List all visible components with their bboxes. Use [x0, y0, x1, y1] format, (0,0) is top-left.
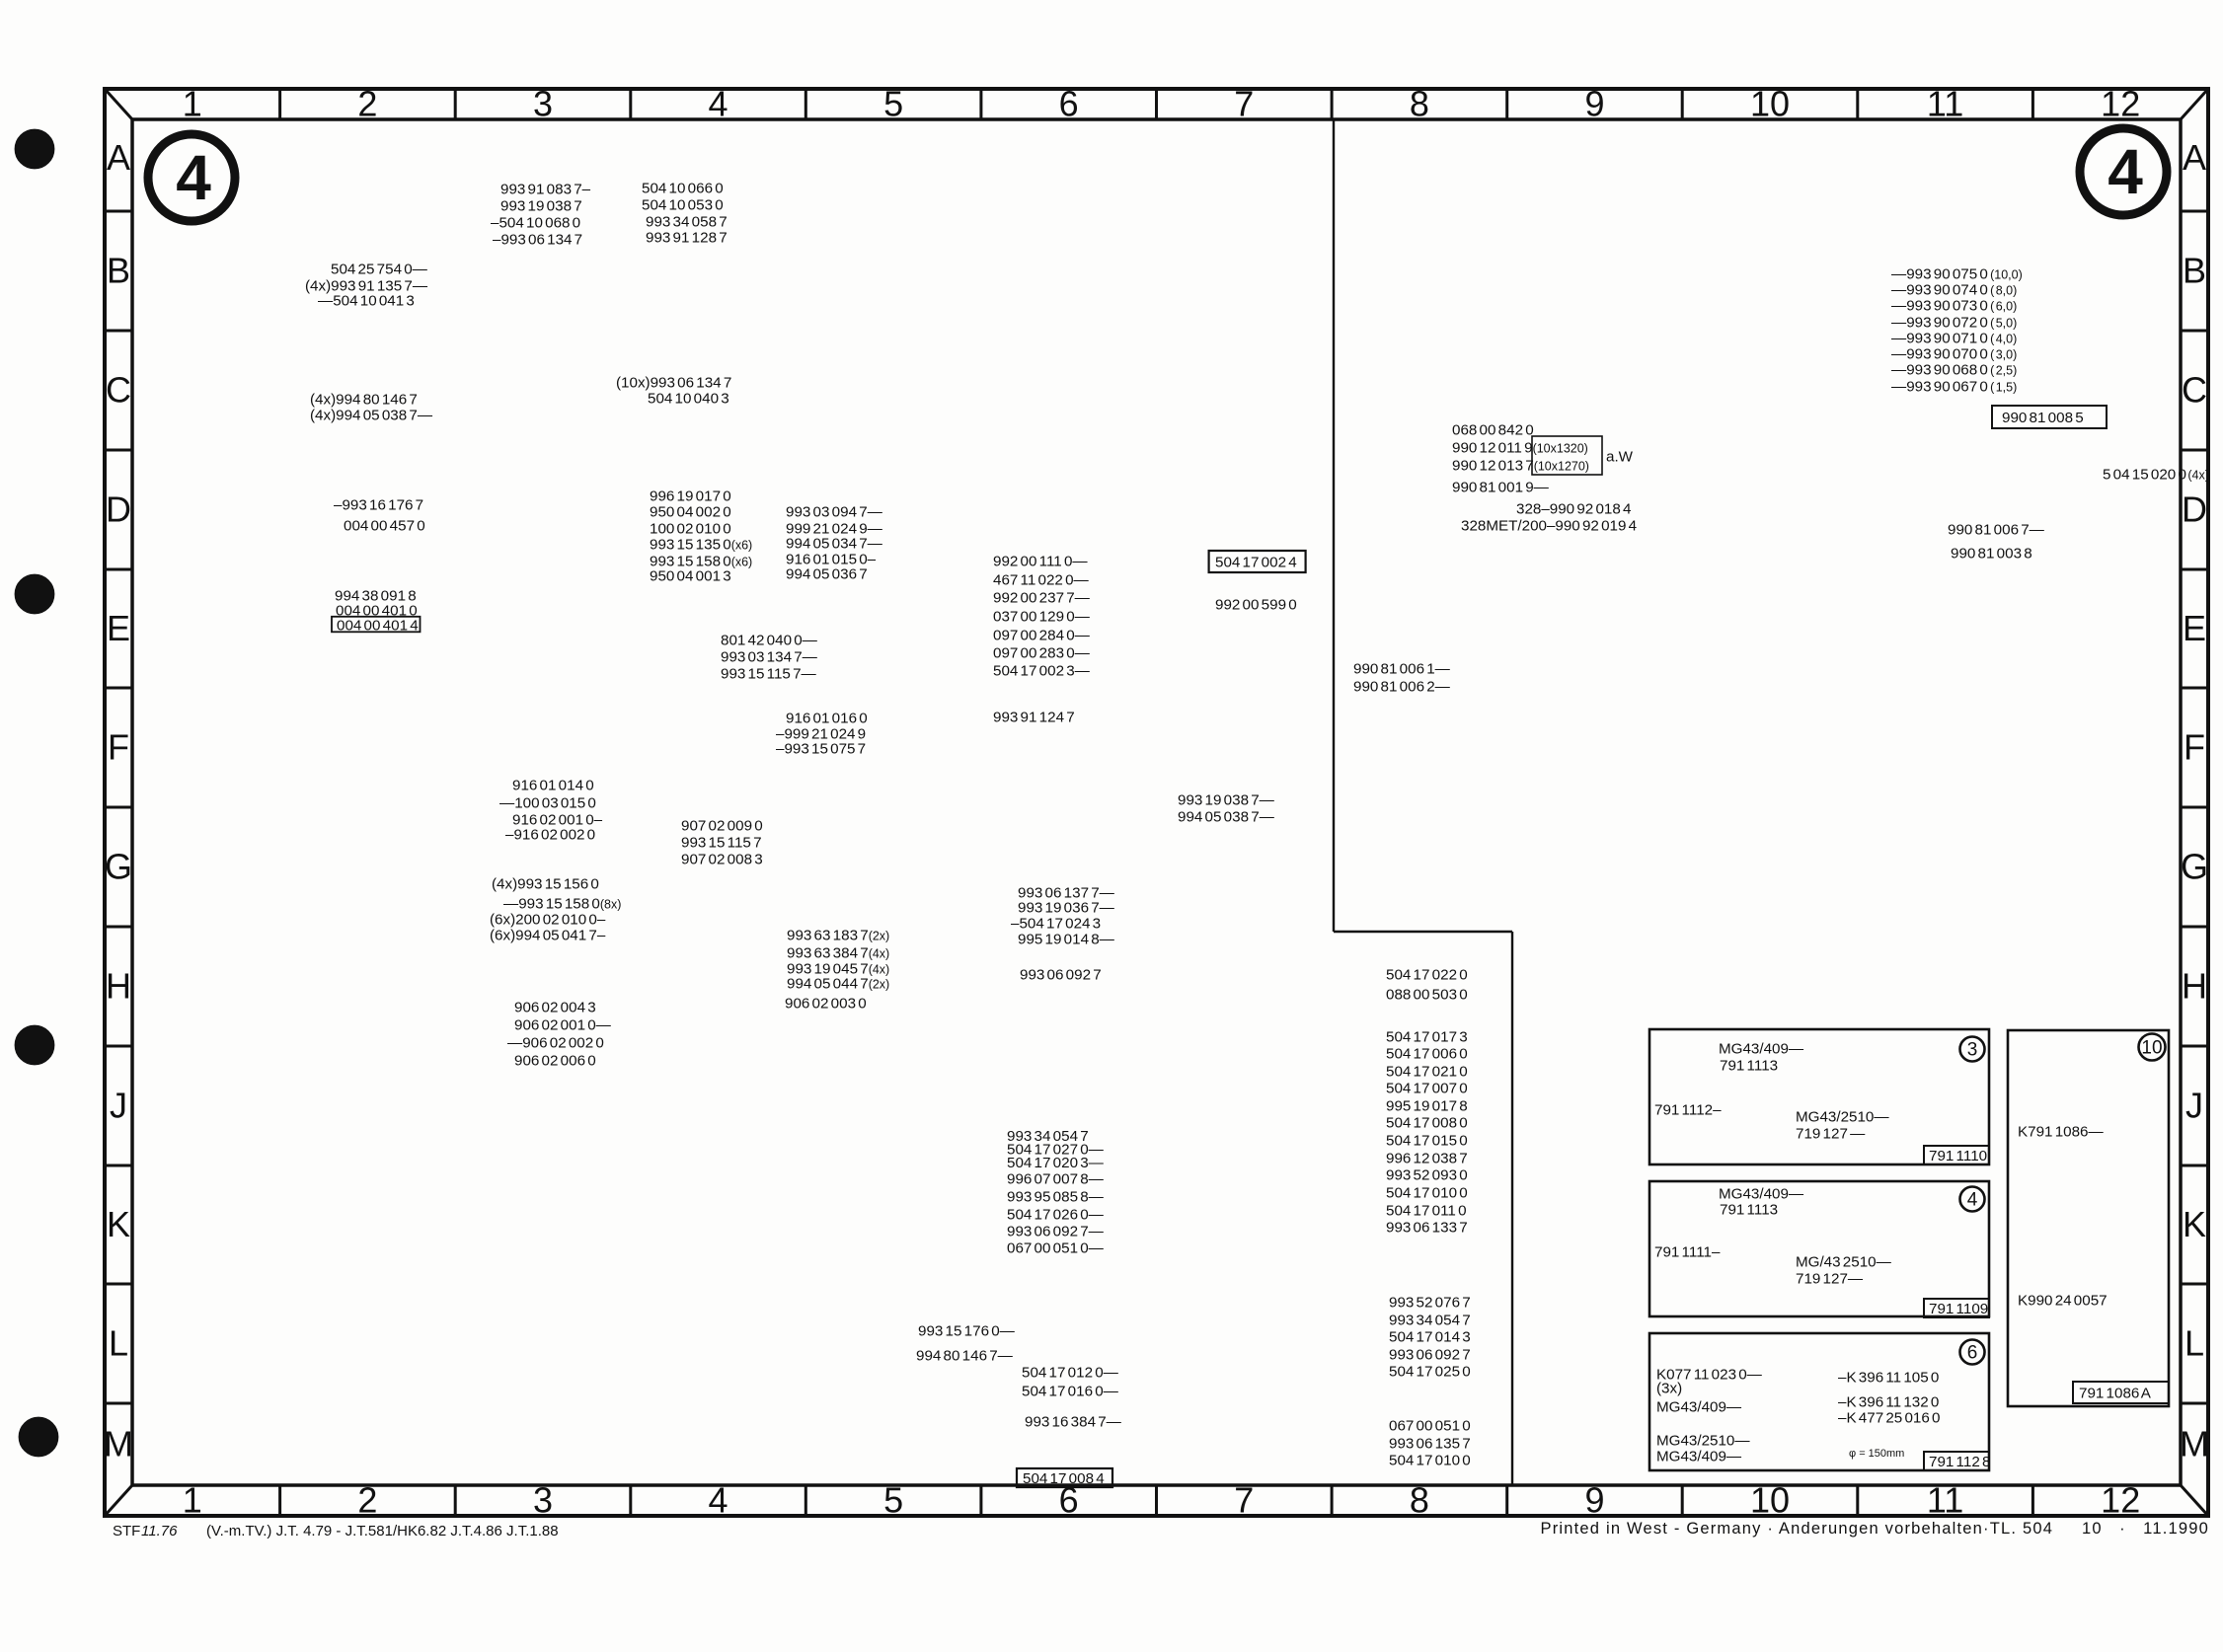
- svg-text:906 02 003 0: 906 02 003 0: [785, 995, 867, 1012]
- svg-text:4: 4: [2108, 136, 2143, 207]
- svg-text:068 00 842 0: 068 00 842 0: [1452, 421, 1534, 438]
- svg-text:K: K: [107, 1204, 130, 1244]
- svg-text:(6x)200 02 010 0–: (6x)200 02 010 0–: [490, 911, 606, 928]
- svg-text:φ = 150mm: φ = 150mm: [1849, 1448, 1904, 1460]
- svg-text:K791 1086—: K791 1086—: [2018, 1123, 2104, 1140]
- svg-text:791 1113: 791 1113: [1720, 1201, 1778, 1218]
- svg-text:993 63 384 7(4x): 993 63 384 7(4x): [787, 944, 889, 961]
- svg-text:10: 10: [2141, 1038, 2162, 1059]
- svg-text:994 05 034 7—: 994 05 034 7—: [786, 535, 883, 552]
- svg-text:719 127 —: 719 127 —: [1796, 1125, 1866, 1142]
- svg-text:504 17 025 0: 504 17 025 0: [1389, 1363, 1471, 1380]
- panel box 3: [1649, 1029, 1989, 1164]
- svg-text:G: G: [2181, 847, 2208, 887]
- svg-text:907 02 009 0: 907 02 009 0: [681, 817, 763, 834]
- svg-text:H: H: [2182, 966, 2207, 1007]
- svg-text:950 04 001 3: 950 04 001 3: [650, 567, 731, 584]
- svg-text:K990 24 0057: K990 24 0057: [2018, 1292, 2108, 1309]
- svg-text:907 02 008 3: 907 02 008 3: [681, 851, 763, 867]
- panel box 10: [2008, 1030, 2169, 1406]
- boxed label 791 1128: [1924, 1452, 1989, 1470]
- svg-text:328–990 92 018 4: 328–990 92 018 4: [1516, 500, 1631, 517]
- svg-text:(6x)994 05 041 7–: (6x)994 05 041 7–: [490, 927, 606, 943]
- svg-text:Printed in West - Germany · An: Printed in West - Germany · Anderungen v…: [1540, 1520, 2209, 1538]
- svg-text:950 04 002 0: 950 04 002 0: [650, 503, 731, 520]
- svg-text:067 00 051 0: 067 00 051 0: [1389, 1417, 1471, 1434]
- svg-text:–916 02 002 0: –916 02 002 0: [505, 826, 595, 843]
- svg-text:504 17 002 4: 504 17 002 4: [1215, 554, 1297, 570]
- svg-text:5: 5: [883, 1480, 903, 1521]
- svg-text:504 17 010 0: 504 17 010 0: [1386, 1184, 1468, 1201]
- svg-text:1: 1: [183, 1480, 202, 1521]
- svg-text:MG43/409—: MG43/409—: [1656, 1398, 1742, 1415]
- svg-text:992 00 237 7—: 992 00 237 7—: [993, 589, 1091, 606]
- svg-text:993 91 124 7: 993 91 124 7: [993, 709, 1075, 725]
- svg-text:993 91 128 7: 993 91 128 7: [646, 229, 728, 246]
- svg-text:993 03 094 7—: 993 03 094 7—: [786, 503, 883, 520]
- svg-text:—993 90 075 0 (10,0): —993 90 075 0 (10,0): [1891, 265, 2023, 282]
- svg-text:1: 1: [183, 84, 202, 124]
- svg-text:L: L: [2185, 1323, 2204, 1364]
- svg-text:504 25 754 0—: 504 25 754 0—: [331, 261, 428, 277]
- svg-text:993 52 093 0: 993 52 093 0: [1386, 1166, 1468, 1183]
- svg-text:—100 03 015 0: —100 03 015 0: [499, 794, 596, 811]
- sheet number circle left: [148, 134, 235, 221]
- sheet number circle right: [2080, 128, 2167, 215]
- svg-text:504 17 022 0: 504 17 022 0: [1386, 966, 1468, 983]
- svg-text:504 17 021 0: 504 17 021 0: [1386, 1063, 1468, 1080]
- svg-text:6: 6: [1059, 84, 1079, 124]
- svg-text:037 00 129 0—: 037 00 129 0—: [993, 608, 1091, 625]
- svg-text:004 00 401 4: 004 00 401 4: [337, 617, 419, 634]
- svg-text:990 81 006 1—: 990 81 006 1—: [1353, 660, 1451, 677]
- svg-text:7: 7: [1234, 1480, 1254, 1521]
- svg-text:990 12 013 7(10x1270): 990 12 013 7(10x1270): [1452, 457, 1589, 474]
- svg-text:504 17 007 0: 504 17 007 0: [1386, 1080, 1468, 1096]
- svg-text:719 127—: 719 127—: [1796, 1270, 1864, 1287]
- svg-text:–504 10 068 0: –504 10 068 0: [491, 214, 580, 231]
- svg-text:8: 8: [1410, 1480, 1429, 1521]
- boxed label 791 1110: [1924, 1146, 1989, 1164]
- svg-text:3: 3: [1967, 1040, 1978, 1061]
- svg-text:906 02 006 0: 906 02 006 0: [514, 1052, 596, 1069]
- svg-text:—993 90 068 0 ( 2,5): —993 90 068 0 ( 2,5): [1891, 361, 2017, 378]
- svg-text:12: 12: [2101, 84, 2140, 124]
- svg-text:504 17 008 0: 504 17 008 0: [1386, 1114, 1468, 1131]
- registration dot upper-middle: [16, 575, 54, 614]
- svg-text:993 03 134 7—: 993 03 134 7—: [721, 648, 818, 665]
- area divider line: [1333, 119, 1335, 932]
- svg-text:10: 10: [1750, 84, 1790, 124]
- svg-text:994 05 038 7—: 994 05 038 7—: [1178, 808, 1275, 825]
- svg-text:993 19 038 7: 993 19 038 7: [500, 197, 582, 214]
- svg-text:M: M: [104, 1424, 133, 1464]
- svg-text:(V.-m.TV.) J.T. 4.79 - J.T.581: (V.-m.TV.) J.T. 4.79 - J.T.581/HK6.82 J.…: [206, 1523, 559, 1539]
- svg-text:504 10 040 3: 504 10 040 3: [648, 390, 729, 407]
- svg-text:J: J: [110, 1086, 127, 1126]
- boxed label 504 17 002 4: [1209, 551, 1306, 572]
- svg-text:993 19 038 7—: 993 19 038 7—: [1178, 791, 1275, 808]
- svg-text:504 10 053 0: 504 10 053 0: [642, 196, 724, 213]
- svg-text:L: L: [109, 1323, 128, 1364]
- svg-text:993 06 092 7—: 993 06 092 7—: [1007, 1223, 1105, 1239]
- svg-text:906 02 004 3: 906 02 004 3: [514, 999, 596, 1015]
- svg-text:—906 02 002 0: —906 02 002 0: [507, 1034, 604, 1051]
- svg-text:A: A: [2183, 137, 2206, 178]
- registration dot lower-middle: [16, 1026, 54, 1065]
- svg-text:a.W: a.W: [1606, 448, 1634, 465]
- svg-text:12: 12: [2101, 1480, 2140, 1521]
- svg-text:MG/43 2510—: MG/43 2510—: [1796, 1253, 1892, 1270]
- svg-text:504 17 015 0: 504 17 015 0: [1386, 1132, 1468, 1149]
- svg-text:C: C: [2182, 370, 2207, 411]
- svg-text:504 17 016 0—: 504 17 016 0—: [1022, 1383, 1119, 1399]
- svg-text:(10x)993 06 134 7: (10x)993 06 134 7: [616, 374, 731, 391]
- svg-text:993 06 135 7: 993 06 135 7: [1389, 1435, 1471, 1452]
- svg-text:4: 4: [176, 142, 211, 213]
- svg-text:–993 15 075 7: –993 15 075 7: [776, 740, 866, 757]
- svg-text:4: 4: [1967, 1190, 1978, 1211]
- svg-text:993 15 115 7—: 993 15 115 7—: [721, 665, 817, 682]
- svg-text:791 1110: 791 1110: [1929, 1148, 1987, 1164]
- svg-text:990 81 001 9—: 990 81 001 9—: [1452, 479, 1550, 495]
- svg-text:F: F: [108, 727, 129, 768]
- svg-text:791 112 8: 791 112 8: [1929, 1454, 1990, 1470]
- svg-text:—993 90 070 0 ( 3,0): —993 90 070 0 ( 3,0): [1891, 345, 2017, 362]
- svg-text:—993 90 072 0 ( 5,0): —993 90 072 0 ( 5,0): [1891, 314, 2017, 331]
- svg-text:791 1113: 791 1113: [1720, 1057, 1778, 1074]
- svg-text:992 00 111 0—: 992 00 111 0—: [993, 553, 1088, 569]
- svg-text:994 05 044 7(2x): 994 05 044 7(2x): [787, 975, 889, 992]
- svg-text:—993 90 067 0 ( 1,5): —993 90 067 0 ( 1,5): [1891, 378, 2017, 395]
- svg-text:(3x): (3x): [1656, 1380, 1682, 1396]
- svg-text:990 12 011 9(10x1320): 990 12 011 9(10x1320): [1452, 439, 1588, 456]
- svg-text:993 06 133 7: 993 06 133 7: [1386, 1219, 1468, 1236]
- svg-text:097 00 284 0—: 097 00 284 0—: [993, 627, 1091, 643]
- svg-text:990 81 003 8: 990 81 003 8: [1951, 545, 2032, 562]
- svg-text:9: 9: [1584, 1480, 1604, 1521]
- svg-text:504 17 008 4: 504 17 008 4: [1023, 1470, 1105, 1487]
- svg-text:993 95 085 8—: 993 95 085 8—: [1007, 1188, 1105, 1205]
- svg-text:5: 5: [883, 84, 903, 124]
- svg-text:G: G: [105, 847, 132, 887]
- svg-text:E: E: [2183, 608, 2206, 648]
- svg-text:–K 396 11 105 0: –K 396 11 105 0: [1838, 1369, 1939, 1386]
- svg-text:(4x)993 15 156 0: (4x)993 15 156 0: [492, 875, 599, 892]
- svg-text:990 81 008 5: 990 81 008 5: [2002, 410, 2084, 426]
- svg-text:504 17 006 0: 504 17 006 0: [1386, 1045, 1468, 1062]
- boxed label 504 17 008 4: [1017, 1468, 1112, 1487]
- svg-text:504 17 012 0—: 504 17 012 0—: [1022, 1364, 1119, 1381]
- svg-text:7: 7: [1234, 84, 1254, 124]
- svg-text:MG43/2510—: MG43/2510—: [1656, 1432, 1750, 1449]
- svg-text:504 17 014 3: 504 17 014 3: [1389, 1328, 1471, 1345]
- svg-text:993 34 058 7: 993 34 058 7: [646, 213, 728, 230]
- svg-text:MG43/409—: MG43/409—: [1656, 1448, 1742, 1464]
- svg-text:993 06 092 7: 993 06 092 7: [1020, 966, 1102, 983]
- svg-text:6: 6: [1967, 1343, 1978, 1364]
- svg-text:B: B: [2183, 251, 2206, 291]
- svg-text:MG43/2510—: MG43/2510—: [1796, 1108, 1889, 1125]
- svg-text:—993 15 158 0(8x): —993 15 158 0(8x): [503, 895, 621, 912]
- registration dot top: [16, 130, 54, 169]
- svg-text:10: 10: [1750, 1480, 1790, 1521]
- svg-text:11.76: 11.76: [141, 1523, 178, 1539]
- svg-text:8: 8: [1410, 84, 1429, 124]
- svg-text:3: 3: [533, 84, 553, 124]
- svg-text:MG43/409—: MG43/409—: [1719, 1185, 1804, 1202]
- svg-text:993 63 183 7(2x): 993 63 183 7(2x): [787, 927, 889, 943]
- svg-text:—993 90 074 0 ( 8,0): —993 90 074 0 ( 8,0): [1891, 281, 2017, 298]
- svg-text:4: 4: [708, 84, 728, 124]
- svg-text:504 17 020 3—: 504 17 020 3—: [1007, 1155, 1105, 1171]
- svg-text:995 19 014 8—: 995 19 014 8—: [1018, 931, 1115, 947]
- svg-text:J: J: [2185, 1086, 2203, 1126]
- svg-text:994 05 036 7: 994 05 036 7: [786, 565, 868, 582]
- svg-text:067 00 051 0—: 067 00 051 0—: [1007, 1239, 1105, 1256]
- svg-text:801 42 040 0—: 801 42 040 0—: [721, 632, 818, 648]
- svg-text:916 01 016 0: 916 01 016 0: [786, 710, 868, 726]
- svg-text:993 52 076 7: 993 52 076 7: [1389, 1294, 1471, 1311]
- svg-text:097 00 283 0—: 097 00 283 0—: [993, 644, 1091, 661]
- svg-text:995 19 017 8: 995 19 017 8: [1386, 1097, 1468, 1114]
- svg-text:993 06 092 7: 993 06 092 7: [1389, 1346, 1471, 1363]
- svg-text:9: 9: [1584, 84, 1604, 124]
- svg-text:993 91 083 7–: 993 91 083 7–: [500, 181, 591, 197]
- svg-text:F: F: [2184, 727, 2205, 768]
- svg-text:D: D: [2182, 489, 2207, 530]
- svg-text:100 02 010 0: 100 02 010 0: [650, 520, 731, 537]
- svg-text:MG43/409—: MG43/409—: [1719, 1040, 1804, 1057]
- svg-text:E: E: [107, 608, 130, 648]
- svg-text:11: 11: [1927, 84, 1963, 124]
- svg-text:M: M: [2180, 1424, 2209, 1464]
- svg-text:—504 10 041 3: —504 10 041 3: [318, 292, 415, 309]
- svg-text:–993 16 176 7: –993 16 176 7: [334, 496, 423, 513]
- svg-text:504 17 026 0—: 504 17 026 0—: [1007, 1206, 1105, 1223]
- boxed label 791 1109: [1924, 1299, 1989, 1317]
- svg-text:993 15 115 7: 993 15 115 7: [681, 834, 762, 851]
- svg-text:B: B: [107, 251, 130, 291]
- svg-text:990 81 006 7—: 990 81 006 7—: [1948, 521, 2045, 538]
- svg-text:993 19 036 7—: 993 19 036 7—: [1018, 899, 1115, 916]
- svg-text:—993 90 071 0 ( 4,0): —993 90 071 0 ( 4,0): [1891, 330, 2017, 346]
- svg-text:990 81 006 2—: 990 81 006 2—: [1353, 678, 1451, 695]
- svg-text:(4x)994 05 038 7—: (4x)994 05 038 7—: [310, 407, 433, 423]
- svg-text:993 34 054 7: 993 34 054 7: [1389, 1312, 1471, 1328]
- svg-text:328MET/200–990 92 019 4: 328MET/200–990 92 019 4: [1461, 517, 1637, 534]
- svg-text:—993 90 073 0 ( 6,0): —993 90 073 0 ( 6,0): [1891, 297, 2017, 314]
- svg-text:504 17 010 0: 504 17 010 0: [1389, 1452, 1471, 1468]
- svg-text:–K 477 25 016 0: –K 477 25 016 0: [1838, 1409, 1940, 1426]
- svg-text:993 15 135 0(x6): 993 15 135 0(x6): [650, 536, 752, 553]
- svg-text:791 1112–: 791 1112–: [1654, 1101, 1722, 1118]
- svg-text:5 04 15 020 0 (4x): 5 04 15 020 0 (4x): [2103, 466, 2209, 483]
- circled 10: [2139, 1034, 2166, 1061]
- svg-text:791 1086 A: 791 1086 A: [2079, 1385, 2152, 1401]
- box around belt sizes: [1532, 436, 1602, 475]
- svg-text:088 00 503 0: 088 00 503 0: [1386, 986, 1468, 1003]
- circled 3: [1960, 1037, 1985, 1062]
- svg-text:A: A: [107, 137, 130, 178]
- panel box 4: [1649, 1181, 1989, 1316]
- svg-text:–993 06 134 7: –993 06 134 7: [493, 231, 582, 248]
- boxed label 004 00 401 4: [332, 617, 421, 633]
- svg-text:–K 396 11 132 0: –K 396 11 132 0: [1838, 1393, 1939, 1410]
- svg-text:994 80 146 7—: 994 80 146 7—: [916, 1347, 1014, 1364]
- svg-text:H: H: [106, 966, 131, 1007]
- svg-text:791 1111–: 791 1111–: [1654, 1243, 1721, 1260]
- svg-text:–504 17 024 3: –504 17 024 3: [1011, 915, 1101, 932]
- svg-text:K: K: [2183, 1204, 2206, 1244]
- svg-text:992 00 599 0: 992 00 599 0: [1215, 596, 1297, 613]
- svg-text:D: D: [106, 489, 131, 530]
- svg-text:504 17 017 3: 504 17 017 3: [1386, 1028, 1468, 1045]
- registration dot bottom: [20, 1418, 58, 1457]
- panel box 6: [1649, 1333, 1989, 1470]
- svg-text:996 07 007 8—: 996 07 007 8—: [1007, 1170, 1105, 1187]
- svg-text:467 11 022 0—: 467 11 022 0—: [993, 571, 1090, 588]
- svg-text:993 15 176 0—: 993 15 176 0—: [918, 1322, 1016, 1339]
- circled 4: [1960, 1187, 1985, 1212]
- boxed label 990 81 008 5: [1992, 406, 2107, 428]
- svg-text:996 12 038 7: 996 12 038 7: [1386, 1150, 1468, 1166]
- svg-text:993 16 384 7—: 993 16 384 7—: [1025, 1413, 1122, 1430]
- svg-text:2: 2: [357, 1480, 377, 1521]
- svg-text:504 17 011 0: 504 17 011 0: [1386, 1202, 1467, 1219]
- svg-text:2: 2: [357, 84, 377, 124]
- svg-text:11: 11: [1927, 1480, 1963, 1521]
- svg-text:504 10 066 0: 504 10 066 0: [642, 180, 724, 196]
- svg-text:916 01 014 0: 916 01 014 0: [512, 777, 594, 793]
- svg-text:(4x)994 80 146 7: (4x)994 80 146 7: [310, 391, 418, 408]
- svg-text:4: 4: [708, 1480, 728, 1521]
- svg-text:3: 3: [533, 1480, 553, 1521]
- svg-text:504 17 002 3—: 504 17 002 3—: [993, 662, 1091, 679]
- svg-text:STF: STF: [113, 1523, 140, 1539]
- svg-text:906 02 001 0—: 906 02 001 0—: [514, 1016, 612, 1033]
- boxed label 791 1086A: [2073, 1382, 2169, 1403]
- svg-text:791 1109: 791 1109: [1929, 1301, 1988, 1317]
- svg-text:C: C: [106, 370, 131, 411]
- svg-text:996 19 017 0: 996 19 017 0: [650, 488, 731, 504]
- circled 6: [1960, 1340, 1985, 1365]
- svg-text:004 00 457 0: 004 00 457 0: [344, 517, 425, 534]
